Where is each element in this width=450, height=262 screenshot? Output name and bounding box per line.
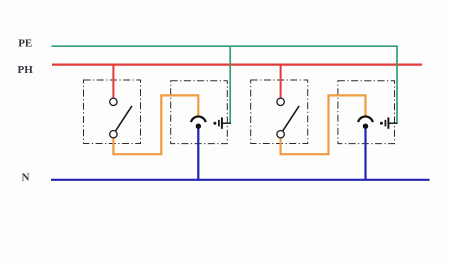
earth contact 2 (380, 117, 397, 128)
wire N rail (blue) (51, 179, 430, 181)
switch box 2 (dashed enclosure) (251, 80, 308, 144)
wire green drop to lamp 1 earth (229, 46, 231, 124)
svg-text:N: N (22, 171, 30, 183)
svg-text:PE: PE (18, 37, 32, 49)
switch S1 (110, 98, 132, 138)
wire blue drop lamp 1 to N (197, 129, 199, 180)
lamp box 1 (dashed enclosure) (171, 81, 228, 144)
wire PE rail (green) with corner down to lamp 2 earth (52, 46, 398, 124)
wire red drop to switch 1 (112, 65, 114, 98)
wire red drop to switch 2 (280, 65, 282, 98)
wire PH rail (red) (52, 63, 422, 65)
earth contact 1 (213, 117, 230, 128)
switch box 1 (dashed enclosure) (84, 80, 141, 144)
wire orange switched phase 2 (281, 95, 366, 154)
wire blue drop lamp 2 to N (364, 129, 366, 180)
lamp E1 (arc + dot) (191, 116, 206, 128)
lamp E2 (arc + dot) (358, 116, 373, 128)
switch S2 (277, 98, 299, 138)
svg-text:PH: PH (18, 64, 34, 76)
wire orange switched phase 1 (113, 95, 198, 154)
lamp box 2 (dashed enclosure) (338, 81, 395, 144)
